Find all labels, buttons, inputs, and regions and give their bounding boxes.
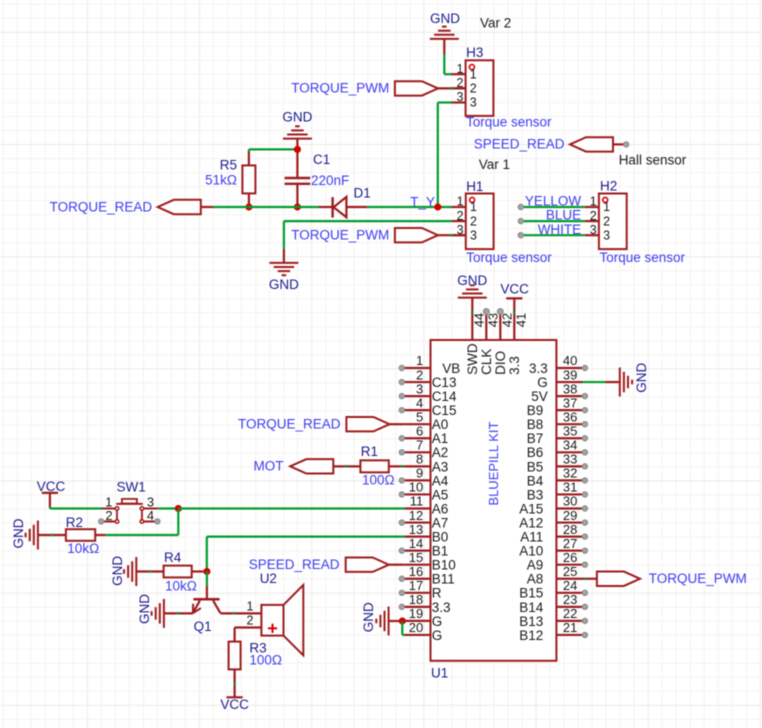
svg-text:17: 17: [409, 578, 423, 593]
svg-text:B0: B0: [432, 530, 449, 545]
connector H3 name: [466, 45, 483, 60]
svg-text:24: 24: [563, 578, 577, 593]
svg-text:B13: B13: [519, 614, 543, 629]
net flag MOT: [254, 459, 334, 474]
IC U1 pin 6 (A1): [399, 423, 448, 446]
resistor R1 name: [361, 444, 378, 459]
IC U1 pin 27 (A10): [519, 536, 587, 559]
wire end SW1 pin 2: [99, 519, 104, 524]
svg-text:3: 3: [590, 223, 597, 237]
IC U1 pin 37 (B9): [527, 395, 588, 418]
supply GND (below H1 pin 2): [269, 249, 299, 292]
svg-text:37: 37: [563, 395, 577, 410]
wire junction to U1 pin 11: [178, 507, 404, 509]
transistor Q1: [193, 599, 220, 613]
resistor R3: [229, 642, 241, 670]
svg-text:1: 1: [457, 195, 464, 209]
svg-text:36: 36: [563, 409, 577, 424]
svg-text:2: 2: [603, 214, 610, 228]
svg-text:D1: D1: [354, 186, 371, 201]
svg-text:2: 2: [470, 214, 477, 228]
svg-text:R: R: [432, 586, 442, 601]
connector H3 pin numbers: [456, 62, 476, 110]
IC U1 pin 16 (B11): [399, 564, 455, 587]
svg-text:1: 1: [470, 200, 477, 214]
wire node to Q1 base: [206, 572, 208, 599]
wire MOT to R1: [333, 465, 360, 467]
svg-text:A10: A10: [519, 544, 543, 559]
svg-text:BLUE: BLUE: [546, 208, 581, 223]
svg-text:12: 12: [409, 508, 423, 523]
svg-text:A6: A6: [432, 501, 449, 516]
speaker U2 plus sign: [268, 624, 277, 633]
svg-text:R4: R4: [164, 550, 182, 565]
supply GND (left of R2): [11, 518, 38, 549]
svg-text:15: 15: [409, 550, 423, 565]
svg-text:1: 1: [470, 67, 477, 81]
IC U1 pin 26 (A9): [527, 550, 588, 573]
IC U1 pin 19 (G): [404, 606, 442, 629]
connector H3 outline: [466, 60, 494, 116]
svg-text:A7: A7: [432, 515, 449, 530]
IC U1 pin 11 (A6): [404, 494, 448, 517]
svg-text:C14: C14: [432, 389, 457, 404]
connector H3 value: [466, 115, 552, 130]
svg-text:20: 20: [409, 620, 423, 635]
svg-text:C1: C1: [313, 152, 330, 167]
svg-text:100Ω: 100Ω: [249, 652, 282, 667]
svg-text:14: 14: [409, 536, 423, 551]
capacitor C1 value: [311, 173, 349, 188]
resistor R1 value: [362, 473, 395, 488]
resistor R5 name: [220, 158, 237, 173]
resistor R2: [66, 529, 95, 541]
net label BLUE: [546, 208, 581, 223]
svg-text:10kΩ: 10kΩ: [67, 541, 99, 556]
svg-text:YELLOW: YELLOW: [525, 194, 582, 209]
connector H2 value: [600, 250, 686, 265]
svg-text:B8: B8: [527, 417, 544, 432]
wire D1 to node T_Y: [367, 206, 451, 208]
switch SW1: [102, 499, 158, 523]
IC U1 pin 35 (B7): [527, 423, 588, 446]
svg-text:2: 2: [470, 82, 477, 96]
wire C1 top node: [249, 149, 298, 152]
resistor R4 value: [165, 579, 197, 594]
wire VCC to SW1 pin 1: [50, 507, 102, 509]
svg-text:3: 3: [470, 96, 477, 110]
net flag SPEED_READ (Hall sensor): [474, 137, 625, 152]
junction C1 top: [294, 146, 301, 153]
IC U1 pin 17 (R): [399, 578, 442, 601]
IC U1 pin 41 (3.3): [507, 312, 529, 375]
svg-text:19: 19: [409, 606, 423, 621]
supply GND (above U1): [457, 273, 487, 314]
diode D1 name: [354, 186, 371, 201]
speaker U2 pin numbers: [246, 599, 253, 627]
IC U1 pin 9 (A4): [399, 466, 449, 489]
IC U1 pin 18 (3.3): [399, 592, 450, 615]
net flag TORQUE_READ (U1 pin 5): [238, 417, 404, 432]
svg-text:1: 1: [246, 599, 253, 613]
svg-text:A11: A11: [520, 530, 543, 545]
wire Q1 emitter to GND: [164, 612, 193, 614]
connector H3 pin-1 circle: [469, 65, 474, 70]
supply VCC (above U1): [500, 282, 529, 314]
svg-text:23: 23: [563, 592, 577, 607]
IC U1 pin 8 (A3): [404, 452, 448, 475]
wire SW1 pin 3 to junction: [158, 507, 176, 509]
svg-text:TORQUE_READ: TORQUE_READ: [50, 199, 153, 214]
svg-text:Torque sensor: Torque sensor: [466, 115, 552, 130]
svg-text:1: 1: [590, 195, 597, 209]
connector H3 pin stubs: [451, 74, 465, 102]
IC U1 pin 25 (A8): [527, 564, 583, 587]
svg-text:GND: GND: [137, 594, 152, 624]
svg-text:TORQUE_PWM: TORQUE_PWM: [291, 228, 389, 243]
net label T_Y: [410, 195, 435, 210]
connector H2 name: [600, 179, 617, 194]
junction SW1 node: [175, 505, 182, 512]
svg-text:SW1: SW1: [117, 480, 146, 495]
svg-text:A15: A15: [519, 501, 543, 516]
svg-text:WHITE: WHITE: [538, 222, 582, 237]
wire Q1 collector to U2: [220, 612, 261, 614]
wire net YELLOW: [521, 206, 585, 208]
wire U1 pin 19 to pin 20: [402, 621, 404, 635]
svg-text:1: 1: [456, 62, 463, 76]
svg-text:Var 2: Var 2: [480, 16, 511, 31]
svg-text:2: 2: [105, 508, 112, 523]
wire GND to R2: [38, 534, 66, 536]
svg-text:51kΩ: 51kΩ: [205, 173, 237, 188]
resistor R3 name: [249, 640, 266, 655]
wire U1 pin 13 to R4 node: [207, 537, 404, 572]
svg-text:Torque sensor: Torque sensor: [600, 250, 686, 265]
svg-text:11: 11: [410, 494, 424, 509]
svg-text:A8: A8: [527, 572, 544, 587]
IC U1 pin 34 (B6): [527, 438, 588, 461]
svg-text:TORQUE_PWM: TORQUE_PWM: [291, 81, 389, 96]
svg-text:Var 1: Var 1: [479, 157, 510, 172]
svg-text:40: 40: [563, 353, 577, 368]
svg-text:R5: R5: [220, 158, 237, 173]
resistor R3 value: [249, 652, 282, 667]
svg-text:G: G: [432, 628, 443, 643]
svg-text:42: 42: [500, 313, 515, 327]
svg-text:GND: GND: [430, 11, 460, 26]
wire H3 pin 3 to node T_Y: [438, 103, 452, 208]
svg-text:4: 4: [147, 508, 154, 523]
IC U1 outline: [431, 340, 557, 661]
IC U1 pin 32 (B4): [527, 466, 588, 489]
net flag TORQUE_PWM (U1 pin 25): [583, 571, 747, 586]
svg-text:43: 43: [486, 313, 501, 327]
svg-text:A3: A3: [432, 459, 449, 474]
IC U1 pin 3 (C14): [399, 381, 457, 404]
svg-text:SPEED_READ: SPEED_READ: [249, 557, 340, 572]
label Var 1: [479, 157, 510, 172]
svg-text:U1: U1: [431, 666, 448, 681]
net flag TORQUE_READ (left): [50, 199, 213, 214]
svg-text:GND: GND: [269, 277, 299, 292]
svg-text:1: 1: [603, 200, 610, 214]
connector H2 pin-1 circle: [603, 197, 608, 202]
svg-text:R2: R2: [66, 515, 83, 530]
svg-text:B9: B9: [527, 403, 544, 418]
label Var 2: [480, 16, 511, 31]
svg-text:4: 4: [416, 395, 423, 410]
svg-text:A0: A0: [432, 417, 449, 432]
svg-text:33: 33: [563, 452, 577, 467]
IC U1 pin 36 (B8): [527, 409, 588, 432]
IC U1 pin 21 (B12): [519, 620, 587, 643]
supply GND (Q1 emitter): [137, 594, 164, 628]
junction U1 pin 19: [399, 617, 406, 624]
wire R1 to U1 pin 8: [389, 465, 404, 467]
svg-text:G: G: [432, 614, 443, 629]
svg-text:SWD: SWD: [465, 343, 480, 375]
svg-text:A9: A9: [527, 558, 544, 573]
IC U1 pin 22 (B13): [519, 606, 587, 629]
wire U1 pin 39 to GND: [583, 381, 619, 383]
svg-text:B12: B12: [519, 628, 543, 643]
svg-text:H3: H3: [466, 45, 483, 60]
svg-text:U2: U2: [260, 571, 277, 586]
switch SW1 pin numbers: [105, 494, 154, 523]
svg-text:22: 22: [563, 606, 577, 621]
svg-text:30: 30: [563, 494, 577, 509]
IC U1 pin 42 (DIO): [493, 309, 515, 375]
svg-text:B7: B7: [527, 431, 544, 446]
svg-text:B15: B15: [519, 586, 543, 601]
svg-text:35: 35: [563, 423, 577, 438]
svg-text:A4: A4: [432, 473, 449, 488]
svg-text:3: 3: [416, 381, 423, 396]
wire GND to H3 pin 1: [444, 40, 451, 75]
supply GND (U1 pin 19): [361, 602, 399, 636]
IC U1 pin 39 (G): [537, 367, 582, 390]
supply VCC (below R3): [220, 697, 249, 712]
IC U1 pin 15 (B10): [404, 550, 456, 573]
wire R2 to junction: [95, 510, 178, 535]
svg-text:6: 6: [416, 423, 423, 438]
junction node T_Y: [434, 203, 441, 210]
svg-text:3: 3: [456, 90, 463, 104]
wire end WHITE: [518, 233, 523, 238]
svg-text:44: 44: [472, 313, 487, 327]
svg-text:3.3: 3.3: [507, 356, 522, 375]
svg-text:3: 3: [470, 228, 477, 242]
svg-text:3.3: 3.3: [529, 361, 548, 376]
connector H2 pin numbers: [590, 195, 610, 243]
svg-text:Q1: Q1: [194, 619, 212, 634]
IC U1 pin 20 (G): [404, 620, 442, 643]
IC U1 pin 4 (C15): [399, 395, 456, 418]
connector H2 pin stubs: [585, 207, 599, 235]
resistor R2 value: [67, 541, 99, 556]
svg-text:SPEED_READ: SPEED_READ: [474, 137, 565, 152]
svg-text:GND: GND: [634, 363, 649, 393]
junction R4 node: [203, 568, 210, 575]
svg-text:21: 21: [563, 620, 577, 635]
svg-text:C15: C15: [432, 403, 457, 418]
IC U1 pin 7 (A2): [399, 438, 448, 461]
IC U1 pin 29 (A12): [519, 508, 587, 531]
supply VCC (SW1): [37, 479, 66, 508]
svg-text:29: 29: [563, 508, 577, 523]
svg-text:1: 1: [416, 353, 423, 368]
svg-text:A2: A2: [432, 445, 449, 460]
svg-text:39: 39: [563, 367, 577, 382]
svg-text:28: 28: [563, 522, 577, 537]
svg-text:26: 26: [563, 550, 577, 565]
resistor R1: [360, 460, 388, 472]
svg-text:GND: GND: [110, 556, 125, 586]
supply GND (above C1): [282, 109, 312, 138]
connector H1 value: [466, 250, 552, 265]
svg-text:B4: B4: [527, 473, 544, 488]
IC U1 pin 2 (C13): [399, 367, 456, 390]
svg-text:A1: A1: [432, 431, 449, 446]
svg-text:G: G: [537, 375, 548, 390]
svg-text:C13: C13: [432, 375, 457, 390]
IC U1 pin 14 (B1): [399, 536, 448, 559]
IC U1 pin 28 (A11): [520, 522, 587, 545]
IC U1 pin 30 (A15): [519, 494, 587, 517]
wire end SW1 pin 4: [155, 519, 160, 524]
IC U1 value BLUEPILL KIT: [486, 421, 501, 505]
supply GND (above H3): [430, 11, 460, 39]
transistor Q1 name: [194, 619, 212, 634]
svg-text:3: 3: [603, 228, 610, 242]
svg-text:B14: B14: [519, 600, 544, 615]
svg-text:13: 13: [409, 522, 423, 537]
wire end BLUE: [518, 219, 523, 224]
net flag TORQUE_PWM (H1 pin 3): [291, 228, 466, 243]
IC U1 pin 12 (A7): [399, 508, 448, 531]
svg-text:27: 27: [563, 536, 577, 551]
label Hall sensor: [619, 152, 687, 167]
svg-text:VB: VB: [442, 361, 460, 376]
svg-text:25: 25: [563, 564, 577, 579]
svg-text:BLUEPILL KIT: BLUEPILL KIT: [486, 421, 501, 505]
svg-text:8: 8: [416, 452, 423, 467]
connector H1 pin-1 circle: [470, 197, 475, 202]
svg-text:B5: B5: [527, 459, 544, 474]
IC U1 pin 23 (B14): [519, 592, 587, 615]
net flag SPEED_READ (U1 pin 15): [249, 557, 404, 572]
resistor R4 name: [164, 550, 182, 565]
svg-text:DIO: DIO: [493, 351, 508, 375]
connector H2 outline: [599, 194, 627, 250]
svg-text:T_Y: T_Y: [410, 195, 435, 210]
svg-text:GND: GND: [11, 518, 26, 548]
svg-text:GND: GND: [282, 109, 312, 124]
IC U1 pin 24 (B15): [519, 578, 587, 601]
svg-text:5V: 5V: [531, 389, 548, 404]
svg-text:A12: A12: [519, 515, 543, 530]
svg-text:2: 2: [416, 367, 423, 382]
IC U1 pin 1 (VB): [399, 353, 460, 376]
capacitor C1: [285, 149, 311, 207]
svg-text:10: 10: [409, 480, 423, 495]
svg-text:B11: B11: [432, 572, 455, 587]
svg-text:5: 5: [416, 409, 423, 424]
IC U1 pin 5 (A0): [404, 409, 448, 432]
wire net BLUE: [521, 220, 585, 222]
svg-text:CLK: CLK: [479, 349, 494, 375]
connector H1 outline: [466, 194, 494, 250]
svg-text:VCC: VCC: [37, 479, 66, 494]
resistor R5: [242, 152, 255, 208]
svg-text:32: 32: [563, 466, 577, 481]
svg-text:Hall sensor: Hall sensor: [619, 152, 687, 167]
svg-text:10kΩ: 10kΩ: [165, 579, 197, 594]
supply GND (left of R4): [110, 556, 137, 586]
svg-text:VCC: VCC: [500, 282, 529, 297]
IC U1 pin 44 (SWD): [465, 312, 487, 375]
speaker U2 name: [260, 571, 277, 586]
wire R3 to VCC: [233, 669, 235, 697]
switch SW1 name: [117, 480, 146, 495]
svg-text:9: 9: [416, 466, 423, 481]
svg-text:18: 18: [409, 592, 423, 607]
IC U1 refdes: [431, 666, 448, 681]
svg-text:2: 2: [590, 209, 597, 223]
svg-text:B3: B3: [527, 487, 544, 502]
net label WHITE: [538, 222, 582, 237]
net label YELLOW: [525, 194, 582, 209]
svg-text:VCC: VCC: [220, 697, 249, 712]
svg-text:A5: A5: [432, 487, 449, 502]
capacitor C1 name: [313, 152, 330, 167]
supply GND (right of U1): [620, 363, 649, 397]
IC U1 pin 10 (A5): [399, 480, 448, 503]
svg-text:7: 7: [416, 438, 423, 453]
wire GND to C1 node: [296, 139, 298, 149]
svg-text:GND: GND: [361, 602, 376, 632]
svg-text:TORQUE_PWM: TORQUE_PWM: [649, 571, 747, 586]
svg-text:38: 38: [563, 381, 577, 396]
resistor R4: [164, 566, 192, 578]
svg-text:2: 2: [457, 209, 464, 223]
wire TORQUE_READ to D1: [213, 206, 319, 208]
svg-text:MOT: MOT: [254, 459, 284, 474]
svg-text:H2: H2: [600, 179, 617, 194]
net flag TORQUE_PWM (H3 pin 2): [291, 81, 465, 96]
svg-text:16: 16: [409, 564, 423, 579]
svg-text:Torque sensor: Torque sensor: [466, 250, 552, 265]
wire end YELLOW: [518, 204, 523, 209]
resistor R2 name: [66, 515, 83, 530]
svg-text:34: 34: [563, 438, 577, 453]
svg-text:41: 41: [514, 313, 529, 327]
svg-text:100Ω: 100Ω: [362, 473, 395, 488]
IC U1 pin 13 (B0): [404, 522, 448, 545]
junction C1 bottom: [294, 203, 301, 210]
diode D1: [319, 197, 368, 218]
svg-text:3.3: 3.3: [432, 600, 451, 615]
svg-text:B6: B6: [527, 445, 544, 460]
wire GND to R4: [136, 570, 163, 572]
svg-text:2: 2: [246, 614, 253, 628]
speaker U2: [261, 585, 303, 655]
connector H1 pin stubs: [452, 207, 466, 235]
svg-text:B10: B10: [432, 558, 456, 573]
junction R5 bottom: [245, 203, 252, 210]
connector H1 pin numbers: [457, 195, 477, 243]
